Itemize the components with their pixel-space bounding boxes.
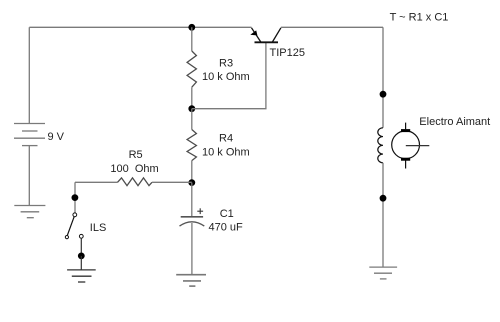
node dot right upper bbox=[380, 91, 387, 98]
ground battery bbox=[14, 206, 45, 218]
wire C1 to ground bbox=[191, 223, 193, 275]
capacitor C1 plus sign bbox=[197, 208, 203, 214]
svg-text:10 k Ohm: 10 k Ohm bbox=[202, 71, 250, 83]
svg-text:100 Ohm: 100 Ohm bbox=[110, 163, 158, 175]
wire R5 left segment bbox=[75, 181, 118, 183]
motor symbol circle bbox=[392, 131, 420, 159]
wire switch to ground bbox=[80, 238, 82, 253]
wire right vertical lower bbox=[382, 163, 384, 267]
wire R5 right segment bbox=[152, 181, 192, 183]
wire base from junction to transistor bbox=[192, 43, 266, 109]
battery B1 9V bbox=[14, 124, 45, 146]
svg-text:9 V: 9 V bbox=[48, 131, 65, 143]
capacitor C1 bottom plate arc bbox=[180, 222, 205, 226]
ground C1 bbox=[176, 275, 206, 286]
node dot R3-R4-base junction bbox=[188, 105, 195, 112]
svg-text:T ~ R1 x C1: T ~ R1 x C1 bbox=[390, 12, 449, 24]
wire battery to ground bbox=[28, 146, 30, 206]
transistor emitter arrow bbox=[250, 30, 257, 35]
wire right vertical upper bbox=[382, 27, 384, 128]
wire top rail from battery to transistor emitter bbox=[29, 26, 251, 28]
node dot switch branch bbox=[72, 194, 79, 201]
transistor Q1 TIP125 bbox=[252, 28, 281, 43]
wire R3 bottom stub bbox=[191, 87, 193, 109]
ground right bbox=[369, 267, 397, 279]
motor top stub bbox=[405, 123, 407, 130]
svg-text:10 k Ohm: 10 k Ohm bbox=[202, 147, 250, 159]
svg-text:470 uF: 470 uF bbox=[209, 221, 244, 233]
svg-text:TIP125: TIP125 bbox=[270, 47, 305, 59]
node dot above switch ground bbox=[78, 253, 85, 260]
svg-text:R4: R4 bbox=[219, 133, 233, 145]
wire collector rail to right vertical bbox=[281, 26, 383, 28]
wire R4 bottom stub bbox=[191, 161, 193, 183]
switch ILS fixed contact bbox=[79, 234, 83, 238]
wire left vertical from top rail to battery bbox=[28, 27, 30, 123]
svg-text:ILS: ILS bbox=[90, 222, 107, 234]
capacitor C1 top plate bbox=[181, 216, 203, 218]
node dot R4-R5-C1 junction bbox=[188, 179, 195, 186]
svg-text:R3: R3 bbox=[219, 57, 233, 69]
motor bottom stub bbox=[405, 160, 407, 168]
inductor L1 electro-aimant coil bbox=[378, 128, 383, 163]
switch ILS top contact bbox=[73, 213, 77, 217]
svg-text:R5: R5 bbox=[129, 149, 143, 161]
ground switch bbox=[67, 270, 96, 282]
switch ILS blade bbox=[67, 217, 74, 236]
switch ILS blade end circle bbox=[65, 236, 68, 239]
motor top brush bbox=[401, 129, 410, 132]
resistor R5 bbox=[118, 178, 153, 186]
svg-text:Electro Aimant: Electro Aimant bbox=[419, 116, 490, 128]
wire C1 top stub bbox=[191, 183, 193, 217]
node dot right lower bbox=[380, 195, 387, 202]
motor shaft line bbox=[406, 145, 430, 147]
node dot top junction bbox=[188, 24, 195, 31]
resistor R4 bbox=[187, 130, 196, 161]
wire R3 top stub bbox=[191, 27, 193, 51]
motor bottom brush bbox=[401, 158, 410, 161]
svg-text:C1: C1 bbox=[220, 208, 234, 220]
wire R4 top stub bbox=[191, 109, 193, 130]
wire dot to ground bbox=[80, 256, 82, 270]
wire switch branch vertical bbox=[74, 182, 76, 213]
resistor R3 bbox=[187, 51, 196, 87]
